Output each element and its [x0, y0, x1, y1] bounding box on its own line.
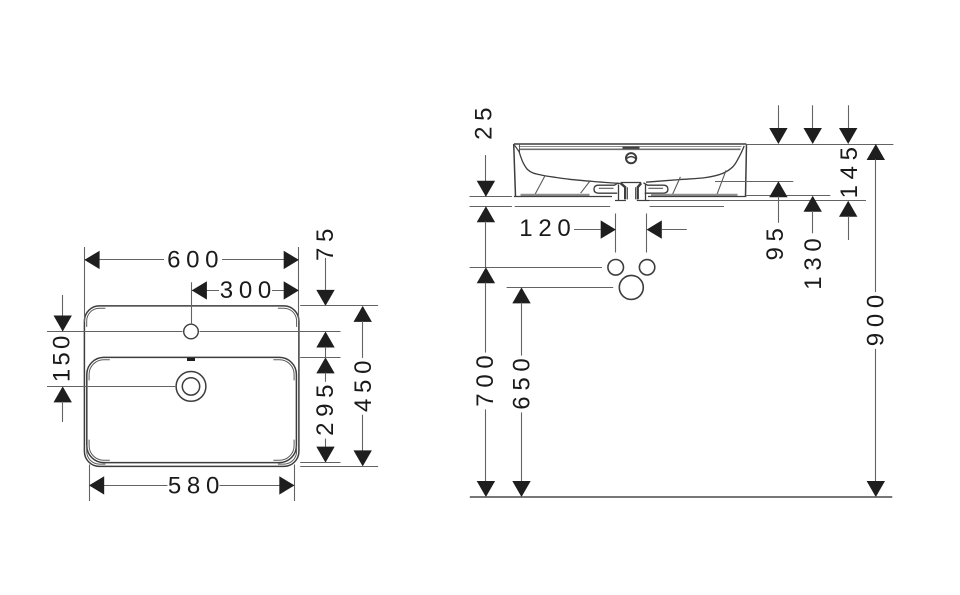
- svg-text:145: 145: [836, 141, 863, 198]
- svg-text:580: 580: [168, 473, 225, 500]
- svg-text:295: 295: [312, 379, 339, 436]
- svg-text:600: 600: [167, 246, 224, 273]
- svg-text:650: 650: [509, 353, 536, 410]
- svg-text:150: 150: [48, 332, 75, 382]
- svg-text:900: 900: [863, 289, 890, 346]
- svg-text:25: 25: [471, 102, 498, 140]
- svg-text:120: 120: [519, 215, 576, 242]
- svg-text:130: 130: [800, 233, 827, 290]
- svg-text:95: 95: [762, 222, 789, 260]
- svg-text:450: 450: [350, 355, 377, 412]
- svg-text:300: 300: [220, 277, 277, 304]
- svg-text:700: 700: [472, 350, 499, 407]
- svg-text:75: 75: [312, 223, 339, 261]
